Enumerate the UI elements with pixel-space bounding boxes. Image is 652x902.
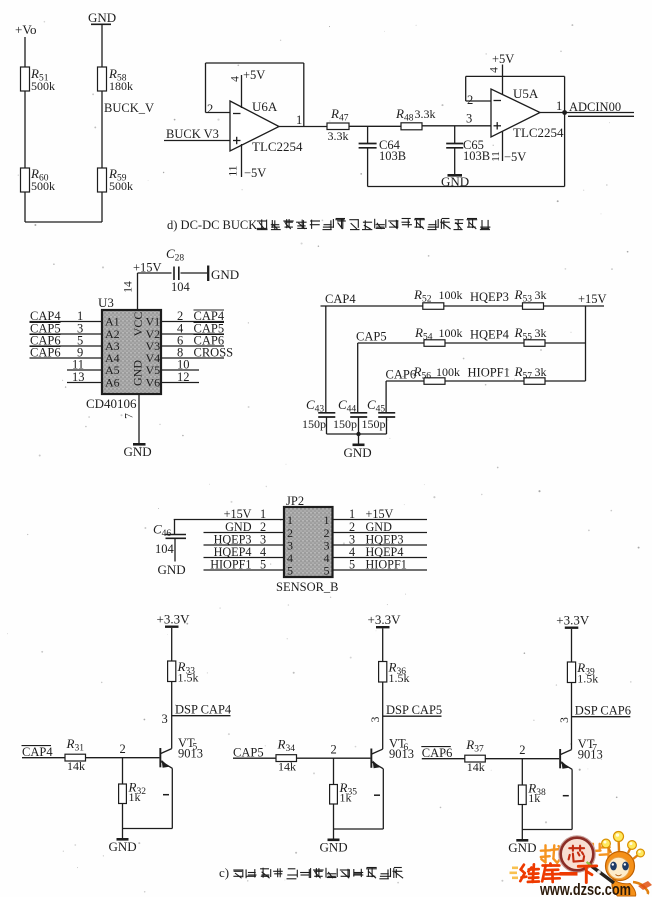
svg-text:V6: V6 (146, 375, 161, 389)
node CAP6 row (386, 368, 586, 413)
svg-text:103B: 103B (379, 149, 406, 163)
resistor R54 (414, 325, 463, 346)
svg-text:HQEP4: HQEP4 (470, 328, 510, 342)
resistor R59 (98, 166, 134, 193)
svg-text:JP2: JP2 (286, 494, 304, 508)
wire (521, 805, 523, 830)
resistor R33 (168, 659, 199, 685)
svg-text:DSP CAP5: DSP CAP5 (386, 703, 442, 717)
svg-text:CAP4: CAP4 (325, 292, 356, 306)
svg-text:BUCK V3: BUCK V3 (166, 127, 219, 141)
wire JP2 right pin 1 (333, 507, 428, 521)
wire (571, 629, 573, 662)
svg-text:A6: A6 (105, 375, 120, 389)
wire (349, 125, 401, 127)
pin 14 VCC wire (123, 261, 172, 311)
svg-text:9013: 9013 (389, 747, 414, 761)
wire (333, 804, 335, 829)
wire JP2 right pin 5 (333, 558, 428, 572)
wire ground rail (368, 113, 565, 187)
svg-text:CAP5: CAP5 (233, 746, 264, 760)
wire output U5A pin 1 (540, 99, 634, 115)
wire JP2 left pin 4 (204, 545, 285, 559)
svg-text:12: 12 (177, 370, 190, 384)
svg-text:HIOPF1: HIOPF1 (468, 366, 510, 380)
svg-text:3k: 3k (535, 365, 547, 379)
wire pin 11 left (67, 358, 102, 372)
svg-text:2: 2 (519, 743, 525, 757)
svg-text:DSP CAP4: DSP CAP4 (175, 703, 232, 717)
wire pin 9 left (30, 346, 103, 360)
svg-text:500k: 500k (109, 179, 133, 193)
node BUCK V3 input (164, 127, 230, 141)
wire output U6A pin 1 (279, 113, 327, 127)
wire and node 3 (422, 112, 491, 126)
svg-text:GND: GND (158, 562, 186, 577)
pin 11 -5V (228, 144, 267, 180)
svg-text:3.3k: 3.3k (415, 107, 436, 121)
resistor R55 (514, 325, 547, 346)
svg-text:CROSS: CROSS (194, 346, 234, 360)
svg-text:1: 1 (556, 99, 562, 113)
svg-text:104: 104 (155, 542, 175, 556)
ground at U3 pin7 (124, 444, 152, 459)
svg-text:1.5k: 1.5k (577, 672, 598, 686)
ground GND top (88, 10, 116, 25)
svg-text:3: 3 (162, 712, 168, 726)
capacitor C43 (302, 397, 335, 434)
svg-text:11: 11 (228, 165, 240, 176)
svg-text:500k: 500k (31, 179, 55, 193)
svg-text:150p: 150p (333, 417, 357, 431)
wire pin 5 left (30, 334, 103, 348)
wire (171, 628, 173, 661)
capacitor C64 (359, 126, 406, 186)
wire (101, 25, 103, 68)
wire pin 8 right (161, 346, 233, 360)
svg-text:5: 5 (324, 564, 330, 578)
capacitor C65 (446, 126, 490, 174)
caption c (219, 865, 403, 880)
svg-text:+15V: +15V (366, 507, 394, 521)
node CAP4 row (321, 292, 605, 412)
wire base (485, 758, 559, 760)
resistor R34 (276, 737, 297, 774)
pin 4 +5V (489, 52, 515, 95)
svg-text:GND: GND (109, 839, 137, 854)
svg-text:13: 13 (72, 370, 85, 384)
svg-text:5: 5 (349, 558, 355, 572)
wire base (86, 757, 160, 759)
ground at C65 (441, 174, 469, 189)
svg-text:−5V: −5V (244, 166, 266, 180)
node DSP CAP5 pin 3 (370, 703, 442, 722)
capacitor C46 (153, 520, 186, 562)
resistor R48 (395, 106, 436, 130)
wire (382, 682, 384, 749)
pin 4 +5V (230, 68, 266, 108)
wire emitter (334, 769, 384, 829)
wire pin 1 left (30, 309, 103, 323)
wire pin 12 right (161, 370, 199, 384)
svg-text:3.3k: 3.3k (328, 129, 349, 143)
svg-text:3k: 3k (535, 288, 547, 302)
wire (24, 37, 26, 67)
svg-text:www.dzsc.com: www.dzsc.com (539, 880, 631, 897)
svg-text:CAP6: CAP6 (386, 368, 417, 382)
svg-text:+3.3V: +3.3V (368, 612, 402, 627)
watermark logo dzsc (510, 832, 652, 900)
wire pin 10 right (161, 358, 199, 372)
svg-text:5: 5 (260, 558, 266, 572)
svg-text:ADCIN00: ADCIN00 (569, 100, 621, 114)
wire pin 4 right (161, 322, 224, 336)
IC U3 pin labels (105, 312, 160, 390)
transistor VT5 9013 (159, 736, 203, 768)
wire feedback U5A (466, 76, 565, 112)
svg-text:TLC2254: TLC2254 (513, 125, 564, 140)
pin 2 (467, 93, 473, 107)
wire pin 3 left (30, 322, 103, 336)
svg-text:HIOPF1: HIOPF1 (210, 558, 251, 572)
resistor R38 (518, 781, 546, 806)
svg-text:GND: GND (88, 10, 116, 25)
wire (24, 91, 26, 168)
svg-text:3: 3 (370, 716, 382, 722)
wire JP2 left pin 1 (174, 507, 284, 521)
svg-text:1: 1 (349, 507, 355, 521)
svg-text:DSP CAP6: DSP CAP6 (575, 704, 631, 718)
resistor R51 (21, 66, 56, 93)
pin 1 emitter (563, 795, 569, 797)
svg-text:1k: 1k (528, 791, 540, 805)
svg-text:150p: 150p (362, 417, 386, 431)
node 2 (331, 743, 337, 785)
node HQEP3 (470, 290, 509, 304)
svg-text:GND: GND (211, 267, 239, 282)
pin 11 -5V (490, 131, 526, 164)
node +3.3V (556, 613, 590, 628)
resistor R37 (465, 737, 486, 774)
wire JP2 right pin 2 (333, 520, 428, 534)
node ADCIN00 (568, 100, 634, 116)
wire JP2 left pin 2 (204, 520, 285, 534)
svg-text:1: 1 (260, 507, 266, 521)
resistor R53 (514, 287, 547, 309)
wire JP2 right pin 3 (333, 533, 428, 547)
node +3.3V (368, 612, 402, 627)
wire base (297, 757, 371, 759)
svg-text:2: 2 (120, 742, 126, 756)
ground at C46 (158, 562, 186, 577)
node CAP5 input (233, 746, 276, 760)
svg-text:VCC: VCC (131, 312, 145, 337)
node +Vo (15, 22, 37, 37)
op-amp U5A (491, 86, 564, 140)
wire (122, 804, 124, 829)
resistor R39 (567, 660, 598, 686)
node DSP CAP6 pin 3 (559, 704, 631, 723)
wire (25, 192, 102, 222)
svg-text:U3: U3 (98, 295, 114, 310)
svg-text:+Vo: +Vo (15, 22, 37, 37)
wire cap ground rail (327, 432, 387, 444)
wire (571, 683, 573, 750)
node +15V rail (578, 292, 607, 381)
wire emitter (522, 769, 572, 829)
svg-text:U5A: U5A (513, 86, 539, 101)
capacitor C28 (166, 246, 207, 294)
svg-text:4: 4 (230, 76, 242, 82)
svg-text:CAP6: CAP6 (30, 346, 61, 360)
wire JP2 left pin 3 (204, 533, 285, 547)
connector JP2 body (276, 494, 339, 594)
svg-text:1: 1 (287, 513, 293, 527)
svg-text:GND: GND (320, 840, 348, 855)
resistor R32 (119, 780, 147, 805)
wire pin 13 left (67, 370, 102, 384)
svg-text:4: 4 (489, 67, 501, 73)
wire (382, 629, 384, 662)
svg-text:2: 2 (207, 102, 213, 116)
svg-text:100k: 100k (439, 326, 463, 340)
svg-text:+15V: +15V (133, 261, 162, 275)
resistor R58 (98, 66, 134, 93)
svg-text:1: 1 (324, 513, 330, 527)
node +3.3V (157, 612, 191, 627)
connector JP2 pin numbers (287, 513, 330, 578)
ground at C28 (208, 266, 239, 283)
wire JP2 right pin 4 (333, 545, 428, 559)
svg-text:5: 5 (287, 564, 293, 578)
svg-text:+15V: +15V (578, 292, 607, 306)
svg-text:11: 11 (490, 151, 502, 162)
svg-text:104: 104 (171, 280, 191, 294)
resistor R47 (327, 106, 349, 143)
resistor R35 (330, 780, 358, 805)
transistor VT6 9013 (370, 737, 414, 769)
svg-text:1k: 1k (340, 791, 352, 805)
resistor R56 (413, 364, 461, 384)
capacitor C45 (362, 397, 396, 434)
IC U3 CD40106 body (86, 295, 161, 411)
svg-text:100k: 100k (439, 288, 463, 302)
node CAP5 row (356, 330, 586, 413)
wire JP2 left pin 5 (204, 558, 285, 572)
svg-text:1.5k: 1.5k (389, 671, 410, 685)
svg-text:GND: GND (508, 840, 536, 855)
wire pin 2 right (161, 309, 225, 323)
svg-text:HIOPF1: HIOPF1 (366, 558, 407, 572)
pin 7 GND wire (124, 394, 139, 444)
op-amp U6A (230, 99, 303, 154)
wire emitter (123, 768, 173, 828)
svg-text:CAP5: CAP5 (356, 330, 387, 344)
svg-text:180k: 180k (109, 79, 133, 93)
wire pin 6 right (161, 334, 224, 348)
svg-text:GND: GND (124, 444, 152, 459)
svg-text:+3.3V: +3.3V (157, 612, 191, 627)
svg-text:+5V: +5V (492, 52, 514, 66)
node 2 (519, 743, 525, 785)
svg-text:14k: 14k (467, 760, 485, 774)
pin 2 (207, 102, 213, 116)
resistor R57 (514, 364, 547, 384)
svg-text:1k: 1k (129, 790, 141, 804)
node CAP4 input (22, 745, 66, 759)
caption d (167, 218, 490, 232)
svg-text:100k: 100k (436, 365, 460, 379)
resistor R52 (413, 287, 463, 309)
svg-text:CAP4: CAP4 (22, 745, 53, 759)
svg-text:3: 3 (466, 112, 472, 126)
ground at C44 (344, 445, 372, 460)
svg-text:−5V: −5V (504, 150, 526, 164)
ground (109, 829, 137, 855)
transistor VT7 9013 (559, 737, 603, 769)
svg-text:+15V: +15V (224, 507, 252, 521)
svg-text:GND: GND (130, 360, 144, 386)
svg-text:TLC2254: TLC2254 (252, 139, 303, 154)
svg-text:CD40106: CD40106 (86, 396, 137, 411)
svg-text:2: 2 (467, 93, 473, 107)
wire (171, 682, 173, 749)
svg-text:9013: 9013 (178, 747, 203, 761)
svg-text:BUCK_V: BUCK_V (104, 101, 154, 115)
svg-text:c): c) (219, 865, 229, 880)
svg-text:1.5k: 1.5k (178, 671, 199, 685)
svg-text:103B: 103B (463, 149, 490, 163)
svg-text:500k: 500k (31, 79, 55, 93)
svg-text:150p: 150p (302, 417, 326, 431)
resistor R60 (21, 166, 56, 193)
svg-text:1: 1 (296, 113, 302, 127)
resistor R36 (379, 660, 410, 686)
ground (320, 829, 348, 855)
svg-text:14k: 14k (278, 760, 296, 774)
svg-text:2: 2 (331, 743, 337, 757)
pin 1 emitter (163, 794, 169, 796)
svg-text:9013: 9013 (578, 748, 603, 762)
ground (508, 830, 536, 856)
svg-text:d) DC-DC BUCK: d) DC-DC BUCK (167, 218, 257, 232)
svg-text:HQEP3: HQEP3 (470, 290, 509, 304)
svg-text:CAP6: CAP6 (422, 746, 453, 760)
resistor R31 (65, 736, 86, 773)
svg-text:+3.3V: +3.3V (556, 613, 590, 628)
node HIOPF1 (468, 366, 510, 380)
svg-text:+5V: +5V (243, 68, 265, 82)
svg-text:7: 7 (124, 413, 136, 419)
capacitor C44 (333, 397, 367, 434)
svg-text:U6A: U6A (252, 99, 278, 114)
node CAP6 input (421, 746, 465, 760)
wire and node BUCK_V (102, 91, 154, 168)
svg-text:GND: GND (344, 445, 372, 460)
pin 1 emitter (374, 794, 380, 796)
svg-text:14: 14 (123, 281, 135, 293)
svg-text:14k: 14k (67, 759, 85, 773)
wire feedback U6A (206, 63, 304, 127)
svg-text:3k: 3k (535, 326, 547, 340)
svg-text:SENSOR_B: SENSOR_B (276, 580, 339, 594)
node 2 (120, 742, 126, 784)
node HQEP4 (470, 328, 510, 342)
node DSP CAP4 pin 3 (162, 703, 232, 727)
svg-text:3: 3 (559, 717, 571, 723)
